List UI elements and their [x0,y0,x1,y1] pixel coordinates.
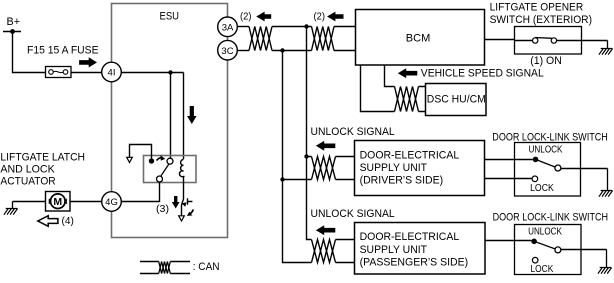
terminal 4G [102,192,122,212]
svg-text:(DRIVER’S SIDE): (DRIVER’S SIDE) [360,175,444,187]
ground (opener switch) [601,41,613,49]
svg-text:UNLOCK: UNLOCK [529,144,563,155]
lever [536,159,556,167]
svg-text:(1) ON: (1) ON [530,55,562,67]
svg-text:(2): (2) [314,11,326,23]
open arrow left (4) [38,216,58,227]
wire into switch [515,40,533,42]
arrow down (current flow) [187,106,197,124]
ground (passenger switch) [600,250,612,268]
CAN bus line (L) [283,51,312,263]
arrow left [256,12,271,22]
wire common to ground [561,249,607,251]
common contact [555,165,561,171]
switch contact R [551,38,556,43]
svg-text:UNLOCK SIGNAL: UNLOCK SIGNAL [311,126,395,138]
door lock-link switch (passenger) box [515,225,582,275]
junction CAN H [304,24,308,28]
wire common to ground [561,168,608,170]
svg-text:LIFTGATE OPENER: LIFTGATE OPENER [490,2,584,14]
wire 3A to twist [237,26,249,28]
BCM box [356,10,485,66]
svg-text:UNLOCK SIGNAL: UNLOCK SIGNAL [311,208,395,220]
arrow left [327,12,344,22]
CAN twist DSC [395,87,419,112]
lever [534,241,555,249]
wire fuse to 4I [71,72,102,74]
terminal 4I [102,62,122,82]
open arrowhead (to next page) [179,216,185,221]
lock contact [532,176,538,182]
wire BCM to DSC twist (upper) [385,65,395,87]
transistor emitter arrow [182,202,187,207]
svg-text:3C: 3C [221,46,233,57]
svg-text:3A: 3A [222,22,234,33]
CAN L wire [272,50,312,52]
wire to relay contact [170,73,172,159]
entry wires to twist (driver) [283,157,312,180]
relay contact (movable pivot) [167,158,173,164]
svg-text:(PASSENGER’S SIDE): (PASSENGER’S SIDE) [360,256,469,268]
relay coil [179,160,183,177]
door lock-link switch (driver) box [515,143,581,197]
CAN bus line (H) [307,27,312,240]
svg-text:LOCK: LOCK [530,183,554,194]
motor M (actuator) [46,192,71,212]
arrow right (battery feed) [79,57,97,67]
unlock contact (closed) [531,239,537,245]
switch lever [535,37,552,40]
wires DESU to lock switch [485,160,533,179]
svg-text:4G: 4G [105,197,118,208]
svg-text:: CAN: : CAN [193,261,220,273]
lock contact [532,257,538,263]
unlock contact (closed) [533,157,539,163]
ground (driver switch) [601,169,613,191]
svg-text:(3): (3) [156,203,169,215]
common contact [555,247,561,253]
door-electrical supply unit (passenger) box [355,223,486,275]
wire ground to motor [13,201,46,203]
open arrowhead (signal out) [127,157,133,162]
wire B+ to fuse [13,32,46,73]
svg-text:ACTUATOR: ACTUATOR [0,175,55,187]
junction on CAN H [304,154,308,158]
svg-text:ESU: ESU [160,10,180,22]
door-electrical supply unit (driver) box [355,141,485,196]
legend CAN symbol [140,262,190,274]
svg-text:DOOR-ELECTRICAL: DOOR-ELECTRICAL [360,231,460,243]
svg-text:(2): (2) [240,11,252,23]
svg-text:UNLOCK: UNLOCK [528,226,562,237]
svg-text:4I: 4I [108,68,116,79]
relay contact (fixed) [149,158,154,163]
svg-text:LIFTGATE LATCH: LIFTGATE LATCH [0,152,85,164]
svg-text:SUPPLY UNIT: SUPPLY UNIT [360,162,428,174]
relay contact (output) [157,176,163,182]
label VEHICLE SPEED SIGNAL [398,68,418,78]
wires to DESU passenger [336,240,355,263]
svg-text:M: M [53,196,62,208]
curved arrow down-left [190,210,194,215]
terminal 3C [218,40,238,60]
wire DESU to lock switch [485,240,531,242]
CAN twist 1 [249,27,272,51]
svg-text:DOOR LOCK-LINK SWITCH: DOOR LOCK-LINK SWITCH [492,131,608,143]
svg-text:B+: B+ [7,16,21,28]
wire 4I to relay branch [121,72,183,74]
wire motor to 4G [70,201,102,203]
CAN H wire [272,26,312,28]
junction on CAN L [280,177,284,181]
svg-text:DOOR LOCK-LINK SWITCH: DOOR LOCK-LINK SWITCH [493,212,609,224]
transistor bar [188,198,193,205]
relay box [144,156,197,183]
wire coil down [182,176,184,215]
svg-text:DSC HU/CM: DSC HU/CM [427,93,486,105]
wire to relay coil [183,73,185,160]
wire BCM to DSC twist (lower) [361,65,395,112]
svg-text:LOCK: LOCK [531,264,554,275]
wire contact to output arrow [130,145,152,162]
junction dot [168,70,172,74]
switch contact L [533,38,538,43]
wires to DESU driver [336,157,355,180]
wire BCM to switch [485,39,515,41]
wires twist2 to BCM [334,27,355,51]
DSC HU/CM box [426,84,487,116]
svg-text:BCM: BCM [406,32,431,44]
relay actuation arrow [157,158,163,161]
CAN twist passenger [312,240,336,263]
terminal 3A [218,17,238,37]
relay lever [161,164,169,176]
svg-text:DOOR-ELECTRICAL: DOOR-ELECTRICAL [360,149,460,161]
svg-text:F15 15 A FUSE: F15 15 A FUSE [27,44,99,56]
ESU control unit box [112,4,228,238]
svg-text:SUPPLY UNIT: SUPPLY UNIT [360,244,428,256]
arrow down small [172,196,180,209]
fuse F15 15A [46,67,72,78]
CAN twist 2 [312,27,335,51]
wire relay to 4G [121,182,159,202]
liftgate opener switch box [515,27,582,55]
svg-text:SWITCH (EXTERIOR): SWITCH (EXTERIOR) [490,14,592,26]
ground (actuator) [6,202,18,209]
stubs to DSC box [419,87,426,112]
wire 3C to twist [237,50,249,52]
junction CAN L [280,48,284,52]
svg-text:VEHICLE SPEED SIGNAL: VEHICLE SPEED SIGNAL [421,68,544,80]
wire to ground [557,40,608,42]
CAN twist driver [312,157,336,180]
svg-text:(4): (4) [62,215,74,227]
svg-text:AND LOCK: AND LOCK [0,164,55,176]
